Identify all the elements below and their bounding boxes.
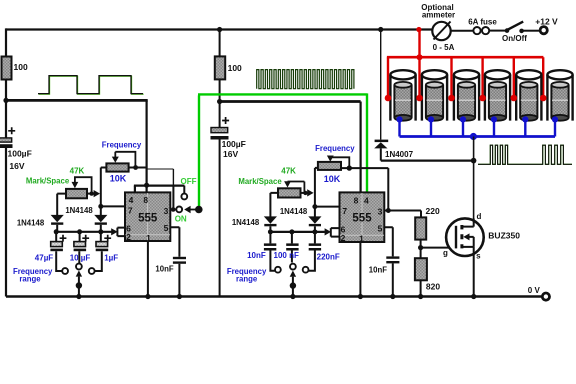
svg-text:3: 3	[378, 207, 383, 217]
resistor 100 (top left)	[2, 57, 12, 80]
potentiometer 10K (stage2)	[318, 162, 341, 170]
wire ammeter to fuse	[451, 30, 473, 32]
svg-text:1µF: 1µF	[104, 254, 118, 263]
svg-text:range: range	[236, 275, 258, 284]
wire mid bus right (Vcc to 555 #2)	[220, 100, 361, 103]
svg-text:0 - 5A: 0 - 5A	[433, 43, 455, 52]
wire 10K to pin7/diode column	[100, 168, 102, 216]
svg-text:1N4148: 1N4148	[65, 206, 93, 215]
wire blue bus tap to drain node	[473, 137, 475, 161]
diode 1N4148 (stage1 right)	[94, 215, 107, 222]
wire fuse to switch	[489, 30, 505, 32]
svg-text:Frequency: Frequency	[102, 141, 142, 150]
svg-text:47µF: 47µF	[35, 254, 54, 263]
svg-text:10nF: 10nF	[369, 265, 387, 274]
svg-text:100: 100	[228, 63, 242, 73]
electrolysis cells	[390, 70, 572, 121]
svg-text:4: 4	[129, 195, 134, 205]
wire middle column vertical	[219, 30, 221, 297]
POWER-RIGHT	[374, 3, 572, 300]
wire bottom ground bus	[6, 295, 541, 298]
transistor BUZ350 MOSFET	[446, 218, 484, 256]
wire to pins 6/2	[111, 228, 117, 235]
wire 47K left to diode (stage2)	[270, 193, 278, 217]
svg-text:100µF: 100µF	[8, 148, 32, 158]
wire drain vertical	[473, 161, 475, 219]
resistor 100 (middle)	[215, 56, 225, 79]
wire thin link to OFF rail	[147, 168, 174, 170]
wire red cell bus	[387, 56, 544, 59]
svg-text:10K: 10K	[324, 174, 341, 184]
svg-text:On/Off: On/Off	[502, 34, 527, 43]
svg-text:7: 7	[342, 206, 347, 216]
svg-text:range: range	[19, 275, 41, 284]
red cell terminals	[385, 95, 547, 102]
svg-text:47K: 47K	[281, 166, 296, 175]
svg-text:s: s	[476, 251, 481, 260]
wire red feed from ammeter node	[418, 30, 420, 97]
svg-text:555: 555	[352, 213, 372, 225]
svg-text:10nF: 10nF	[155, 264, 173, 273]
svg-text:100 nF: 100 nF	[274, 251, 299, 260]
svg-text:3: 3	[164, 206, 169, 216]
svg-text:2: 2	[341, 233, 346, 243]
capacitor 100uF 16V (left)	[0, 138, 12, 142]
svg-text:4: 4	[364, 195, 369, 205]
diode 1N4148 (stage2 right)	[308, 216, 321, 223]
wire 47K left to diode	[57, 194, 66, 216]
switch On/Off	[505, 28, 510, 33]
svg-text:Mark/Space: Mark/Space	[238, 177, 282, 186]
capacitor 10uF	[79, 232, 81, 242]
svg-text:Frequency: Frequency	[315, 144, 355, 153]
svg-text:6A fuse: 6A fuse	[468, 17, 497, 26]
op IC 555 #2	[340, 192, 385, 242]
svg-text:5: 5	[164, 223, 169, 233]
svg-text:8: 8	[354, 195, 359, 205]
STAGE2	[211, 56, 422, 299]
svg-text:16V: 16V	[9, 161, 24, 171]
svg-text:0 V: 0 V	[528, 286, 541, 295]
wire drop to 555 #2 pin 8	[360, 102, 362, 193]
capacitor 220nF (stage2 timing)	[314, 232, 316, 244]
svg-text:1N4148: 1N4148	[17, 219, 45, 228]
diode 1N4148 (stage1 left)	[51, 215, 64, 222]
wire drain node horizontal	[381, 160, 474, 162]
resistor 220	[420, 211, 422, 218]
wire 10K left to pin7/diode column	[314, 168, 316, 217]
electrolysis cell 1	[390, 70, 415, 121]
svg-text:1N4148: 1N4148	[280, 207, 308, 216]
selector wiper stage1	[76, 270, 82, 276]
terminal +12V	[540, 27, 547, 34]
capacitor 100nF (stage2 timing)	[291, 232, 293, 244]
switch OFF contact	[183, 186, 185, 194]
svg-text:ammeter: ammeter	[422, 10, 455, 19]
node pin7 junction (stage2)	[312, 204, 317, 209]
wire pin3 feed from pot	[387, 168, 389, 210]
STAGE1	[0, 57, 203, 300]
svg-text:+12 V: +12 V	[535, 17, 558, 27]
WIRES-MAIN	[3, 27, 572, 297]
node junction middle column / mid bus right	[217, 99, 222, 104]
wire blue drops from cells	[400, 119, 556, 136]
svg-text:47K: 47K	[70, 166, 85, 175]
diode 1N4007 branch	[380, 30, 382, 140]
svg-text:7: 7	[128, 206, 133, 216]
waveform gated bursts (MOSFET drive)	[478, 145, 572, 164]
potentiometer 10K (stage1)	[106, 163, 128, 171]
wire pin3 riser	[172, 186, 174, 210]
svg-text:220nF: 220nF	[317, 252, 340, 261]
capacitor 100uF 16V (middle)	[211, 128, 228, 133]
wire to pins 6/2 (stage2)	[325, 228, 331, 235]
potentiometer 47K Mark/Space (stage1)	[66, 189, 87, 198]
svg-text:Mark/Space: Mark/Space	[26, 177, 70, 186]
electrolysis cell 3	[454, 70, 479, 121]
selector wiper stage2	[290, 271, 296, 277]
node junction left rail / mid bus	[3, 98, 8, 103]
switch ON contact / pin3 node	[170, 209, 176, 211]
ammeter (optional)	[432, 22, 450, 40]
wire blue cell bus	[400, 135, 556, 138]
wire timing-cap bus stage2	[270, 231, 325, 233]
svg-text:100: 100	[14, 62, 28, 72]
electrolysis cell 6	[547, 70, 572, 121]
svg-text:d: d	[477, 212, 482, 221]
capacitor 10nF (stage2 timing)	[269, 232, 271, 244]
capacitor 47uF	[55, 232, 57, 242]
svg-text:220: 220	[426, 206, 440, 216]
waveform square slow (green/black)	[39, 76, 144, 94]
fuse 6A	[473, 27, 480, 34]
wire top rail	[6, 28, 432, 30]
wire mid bus left (Vcc to 555 #1)	[6, 99, 148, 102]
electrolysis cell 2	[422, 70, 447, 121]
waveform fast pulses (after 555 #2 R)	[257, 70, 354, 89]
terminal 0V	[542, 293, 549, 300]
diode 1N4148 (stage2 left)	[264, 216, 277, 223]
wire pin3 output (stage2)	[384, 210, 421, 212]
svg-text:16V: 16V	[223, 149, 238, 159]
svg-text:OFF: OFF	[181, 177, 197, 186]
svg-text:g: g	[443, 249, 448, 258]
svg-text:1N4148: 1N4148	[232, 218, 260, 227]
node junction top rail / middle column	[217, 27, 222, 32]
svg-text:BUZ350: BUZ350	[488, 231, 520, 241]
capacitor 10nF (555#1 pin5)	[170, 227, 179, 256]
svg-text:100µF: 100µF	[222, 139, 246, 149]
capacitor 1uF	[100, 232, 102, 242]
svg-text:10 µF: 10 µF	[70, 254, 91, 263]
svg-text:10K: 10K	[110, 173, 127, 183]
wire drop to 555 #1 pins 4/8	[146, 100, 148, 192]
potentiometer 47K Mark/Space (stage2)	[278, 188, 301, 197]
resistor 820	[415, 258, 427, 280]
svg-text:ON: ON	[175, 214, 187, 223]
wire timing-cap bus stage1	[56, 231, 111, 233]
wire pin1 to ground (stage2)	[359, 242, 361, 297]
capacitor 10nF (555#2 pin5)	[384, 227, 393, 256]
op IC 555 #1	[125, 192, 170, 241]
svg-text:5: 5	[378, 224, 383, 234]
electrolysis cell 4	[485, 70, 510, 121]
svg-text:555: 555	[138, 212, 158, 224]
wire gate	[421, 247, 456, 249]
svg-text:1N4007: 1N4007	[385, 150, 414, 159]
wire pin1 to ground	[147, 241, 149, 297]
electrolysis cell 5	[516, 70, 541, 121]
wire pins 4/8 rail	[134, 185, 185, 187]
svg-text:820: 820	[426, 281, 440, 291]
wire red drops to cells	[388, 57, 543, 96]
svg-text:8: 8	[143, 195, 148, 205]
node pin7 junction	[98, 204, 103, 209]
wire left vertical rail	[5, 28, 7, 296]
wire green link 555#1 out to 555#2 reset	[198, 93, 367, 209]
svg-text:2: 2	[126, 232, 131, 242]
svg-text:10nF: 10nF	[247, 251, 266, 260]
